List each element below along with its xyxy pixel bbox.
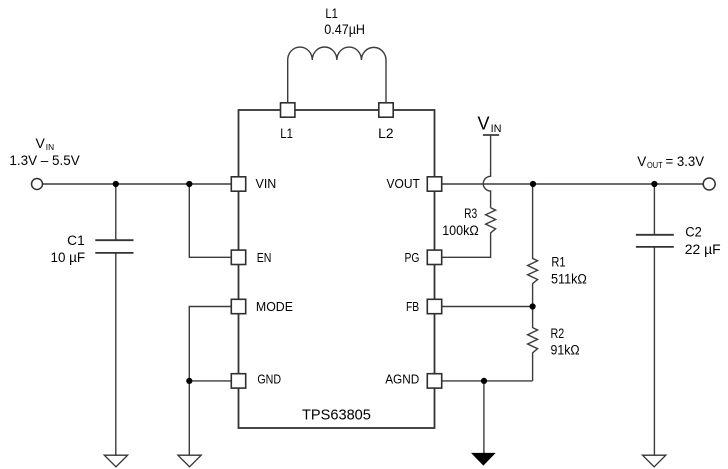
svg-text:1.3V – 5.5V: 1.3V – 5.5V [9,153,79,168]
svg-text:= 3.3V: = 3.3V [666,154,705,169]
svg-text:R2: R2 [551,326,565,341]
svg-text:OUT: OUT [647,160,663,170]
svg-text:C2: C2 [685,225,702,240]
svg-text:0.47µH: 0.47µH [324,22,365,37]
svg-text:PG: PG [405,250,420,265]
svg-text:L2: L2 [378,126,393,141]
svg-text:IN: IN [46,142,54,152]
svg-text:V: V [637,154,646,169]
svg-text:L1: L1 [325,6,338,21]
svg-text:R1: R1 [551,254,565,269]
svg-text:C1: C1 [67,233,85,248]
svg-text:FB: FB [406,299,419,314]
svg-text:91kΩ: 91kΩ [551,343,580,358]
svg-text:VOUT: VOUT [387,176,420,191]
svg-text:GND: GND [257,372,281,387]
svg-text:AGND: AGND [385,372,419,387]
svg-text:22 µF: 22 µF [685,242,721,257]
svg-text:EN: EN [257,250,272,265]
svg-text:R3: R3 [464,206,477,221]
svg-text:MODE: MODE [256,299,293,314]
svg-text:100kΩ: 100kΩ [442,223,479,238]
svg-text:L1: L1 [280,126,293,141]
svg-text:TPS63805: TPS63805 [302,407,371,424]
svg-text:V: V [478,113,490,133]
svg-text:VIN: VIN [256,176,277,191]
svg-text:V: V [36,135,46,151]
svg-text:IN: IN [491,123,502,135]
svg-text:511kΩ: 511kΩ [551,271,587,286]
svg-text:10 µF: 10 µF [51,250,86,265]
